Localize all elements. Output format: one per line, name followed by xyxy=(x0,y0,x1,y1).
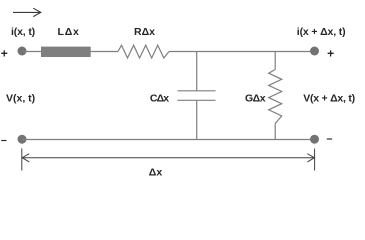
svg-text:−: − xyxy=(326,134,332,146)
capacitor CΔx upper plate xyxy=(178,90,216,92)
capacitor CΔx lower plate xyxy=(178,99,216,101)
svg-text:V(x, t): V(x, t) xyxy=(6,92,35,104)
svg-text:+: + xyxy=(327,46,334,60)
svg-text:V(x + Δx, t): V(x + Δx, t) xyxy=(303,92,355,104)
dimension right tick xyxy=(314,149,316,171)
node dot top-left xyxy=(18,47,27,56)
svg-text:i(x + Δx, t): i(x + Δx, t) xyxy=(297,26,346,38)
capacitor branch: wire from lower plate to bottom rail xyxy=(196,100,198,139)
capacitor branch: wire from top rail to upper plate xyxy=(196,52,198,91)
inductor L (solid block) xyxy=(41,47,91,57)
svg-text:GΔx: GΔx xyxy=(245,92,266,104)
conductance branch: wire from top rail to zigzag xyxy=(274,52,276,70)
node dot bottom-left xyxy=(18,135,27,144)
current direction arrow (top-left) xyxy=(13,8,41,16)
resistor R (zigzag) xyxy=(118,45,169,58)
bottom rail wire xyxy=(22,139,315,141)
dimension right arrowhead xyxy=(307,154,314,162)
svg-text:i(x, t): i(x, t) xyxy=(11,26,35,38)
dimension left tick xyxy=(21,149,23,171)
node dot bottom-right xyxy=(310,135,319,144)
svg-text:RΔx: RΔx xyxy=(134,26,155,38)
conductance branch: wire from zigzag to bottom rail xyxy=(274,124,276,140)
wire: resistor R to top-right dot (through junctions) xyxy=(169,51,315,53)
svg-text:CΔx: CΔx xyxy=(150,92,169,104)
svg-text:−: − xyxy=(1,135,7,147)
dimension left arrowhead xyxy=(22,154,29,162)
svg-text:+: + xyxy=(1,46,8,60)
conductance GΔx (vertical zigzag) xyxy=(269,70,282,124)
wire: inductor to resistor R xyxy=(91,51,118,53)
node dot top-right xyxy=(310,47,319,56)
dimension line xyxy=(22,157,315,159)
svg-text:LΔx: LΔx xyxy=(58,26,80,38)
svg-text:Δx: Δx xyxy=(149,167,163,179)
wire: top-left dot to inductor xyxy=(22,51,41,53)
